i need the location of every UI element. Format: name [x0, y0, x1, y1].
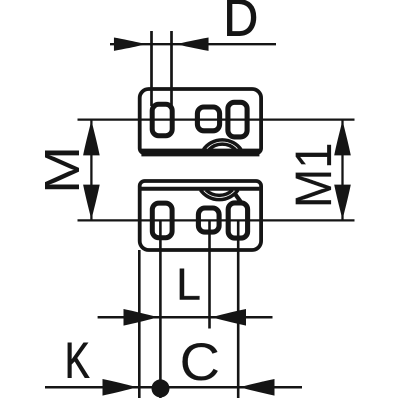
arrow D right — [176, 38, 209, 51]
top block right slot — [228, 102, 247, 137]
top block center hole — [197, 107, 219, 131]
bottom block left slot — [152, 203, 172, 238]
bottom block center hole — [198, 208, 219, 232]
top block outline — [140, 89, 261, 153]
top block left slot — [152, 104, 172, 135]
bottom block dome inner arc — [206, 190, 233, 195]
dome to slot bridge — [235, 194, 241, 202]
arrow M1 up — [334, 120, 351, 155]
dimension D line — [110, 43, 276, 45]
arrow L left — [124, 309, 159, 326]
svg-text:M1: M1 — [286, 142, 342, 208]
extension below left edge — [138, 250, 141, 398]
dimension L line — [98, 316, 273, 319]
D extension line left — [150, 31, 153, 106]
extension below left slot center — [159, 220, 162, 398]
top block lower edge double line — [141, 154, 259, 157]
arrow L right — [211, 309, 246, 326]
top block dome inner arc — [209, 144, 236, 149]
arrow M up — [83, 120, 100, 155]
bottom block strip line — [141, 187, 259, 191]
arrow M1 down — [334, 185, 351, 220]
svg-text:K: K — [65, 333, 90, 389]
arrow K — [103, 379, 138, 396]
dimension M1 line — [341, 120, 343, 220]
bottom block outline — [140, 181, 261, 250]
dimension K C line — [45, 386, 302, 389]
extension below right slot center — [237, 220, 240, 398]
svg-text:L: L — [176, 260, 201, 309]
top block dome outer arc — [204, 140, 242, 150]
arrow C — [240, 379, 275, 396]
svg-text:D: D — [224, 0, 259, 47]
svg-text:M: M — [35, 146, 90, 194]
top block strip line — [141, 149, 259, 152]
centerline bottom row — [78, 219, 355, 221]
arrow D left — [114, 38, 147, 51]
centerline top row — [78, 118, 355, 120]
D extension line right — [170, 31, 173, 106]
arrow M down — [83, 185, 100, 220]
svg-text:C: C — [180, 332, 220, 391]
extension below center hole — [208, 220, 211, 328]
bottom block right slot — [228, 203, 247, 238]
dimension M line — [90, 120, 92, 220]
dot on K C line — [152, 379, 170, 397]
bottom block dome outer arc — [201, 190, 239, 200]
